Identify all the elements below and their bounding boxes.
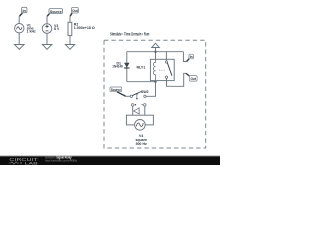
svg-text:8 V: 8 V <box>54 27 60 31</box>
relay switch lever <box>167 63 172 76</box>
wire V3 top <box>46 16 48 23</box>
source V4 terminals <box>131 104 134 107</box>
svg-text:LAB: LAB <box>25 161 38 166</box>
node flag Out (relay) <box>186 73 190 76</box>
relay mechanical link (dashed) <box>159 69 166 71</box>
wire bottom rail <box>127 81 156 83</box>
footer bar <box>0 154 220 157</box>
svg-text:Source: Source <box>111 88 121 92</box>
node flag In (relay) <box>187 59 190 62</box>
wire R2 bottom <box>69 36 71 45</box>
svg-text:In: In <box>190 55 193 59</box>
svg-text:http://circuitlab.com/c/4f56fy: http://circuitlab.com/c/4f56fy <box>45 159 77 163</box>
relay coil <box>153 59 155 80</box>
ground (R2) <box>65 45 74 50</box>
wire VCC to coil <box>155 48 157 60</box>
wire R2 top <box>69 16 71 22</box>
source V4 box <box>126 115 153 125</box>
wire Source to SW2 <box>126 95 130 97</box>
resistor R2 <box>68 22 72 35</box>
wire V1 bottom <box>18 33 20 45</box>
svg-text:1 kHz: 1 kHz <box>27 30 36 34</box>
wire switch common stem <box>165 52 167 59</box>
svg-text:Out: Out <box>191 77 197 81</box>
diode D1 <box>124 63 129 68</box>
junction dot bottom rail <box>155 81 157 83</box>
relay switch contacts <box>165 61 167 63</box>
source V4 circle with wave <box>135 120 146 131</box>
wire top rail <box>127 51 184 53</box>
source V4 triangle <box>134 108 140 114</box>
source V4 posts <box>133 106 145 115</box>
svg-text:1.000e+18 Ω: 1.000e+18 Ω <box>74 26 95 30</box>
wire relay switch to Out flag <box>167 73 186 86</box>
svg-text:Out: Out <box>72 9 78 13</box>
wire to In flag <box>183 52 186 62</box>
wire relay switch top pin <box>165 59 167 61</box>
svg-text:SW2: SW2 <box>141 90 149 94</box>
node flag Source (relay) <box>110 87 122 92</box>
wire coil bottom to SW2 <box>146 80 156 96</box>
voltage source V1 (sine) <box>15 24 24 33</box>
wire V1 top <box>18 16 20 23</box>
wire V3 bottom <box>46 33 48 44</box>
relay RLY1 <box>150 59 174 80</box>
voltage source V3 <box>42 24 52 34</box>
switch SW2 <box>130 95 132 97</box>
wire D1 branch vertical <box>126 52 128 82</box>
svg-text:1N4148: 1N4148 <box>112 64 123 68</box>
svg-text:Source: Source <box>50 9 63 14</box>
ground (V1) <box>15 45 25 50</box>
ground (V3) <box>42 45 52 50</box>
junction dot top rail <box>155 51 157 53</box>
node flag Out (left) <box>72 8 79 14</box>
svg-text:500 Hz: 500 Hz <box>136 142 147 146</box>
simulation dashed region box <box>104 40 206 148</box>
power net flag (VCC arrow) <box>152 43 160 47</box>
node flag Source (left) <box>49 9 63 14</box>
node flag In (left) <box>22 7 27 12</box>
svg-text:RLY1: RLY1 <box>136 66 145 70</box>
svg-text:Simulate › Time Domain › Run: Simulate › Time Domain › Run <box>110 31 149 36</box>
